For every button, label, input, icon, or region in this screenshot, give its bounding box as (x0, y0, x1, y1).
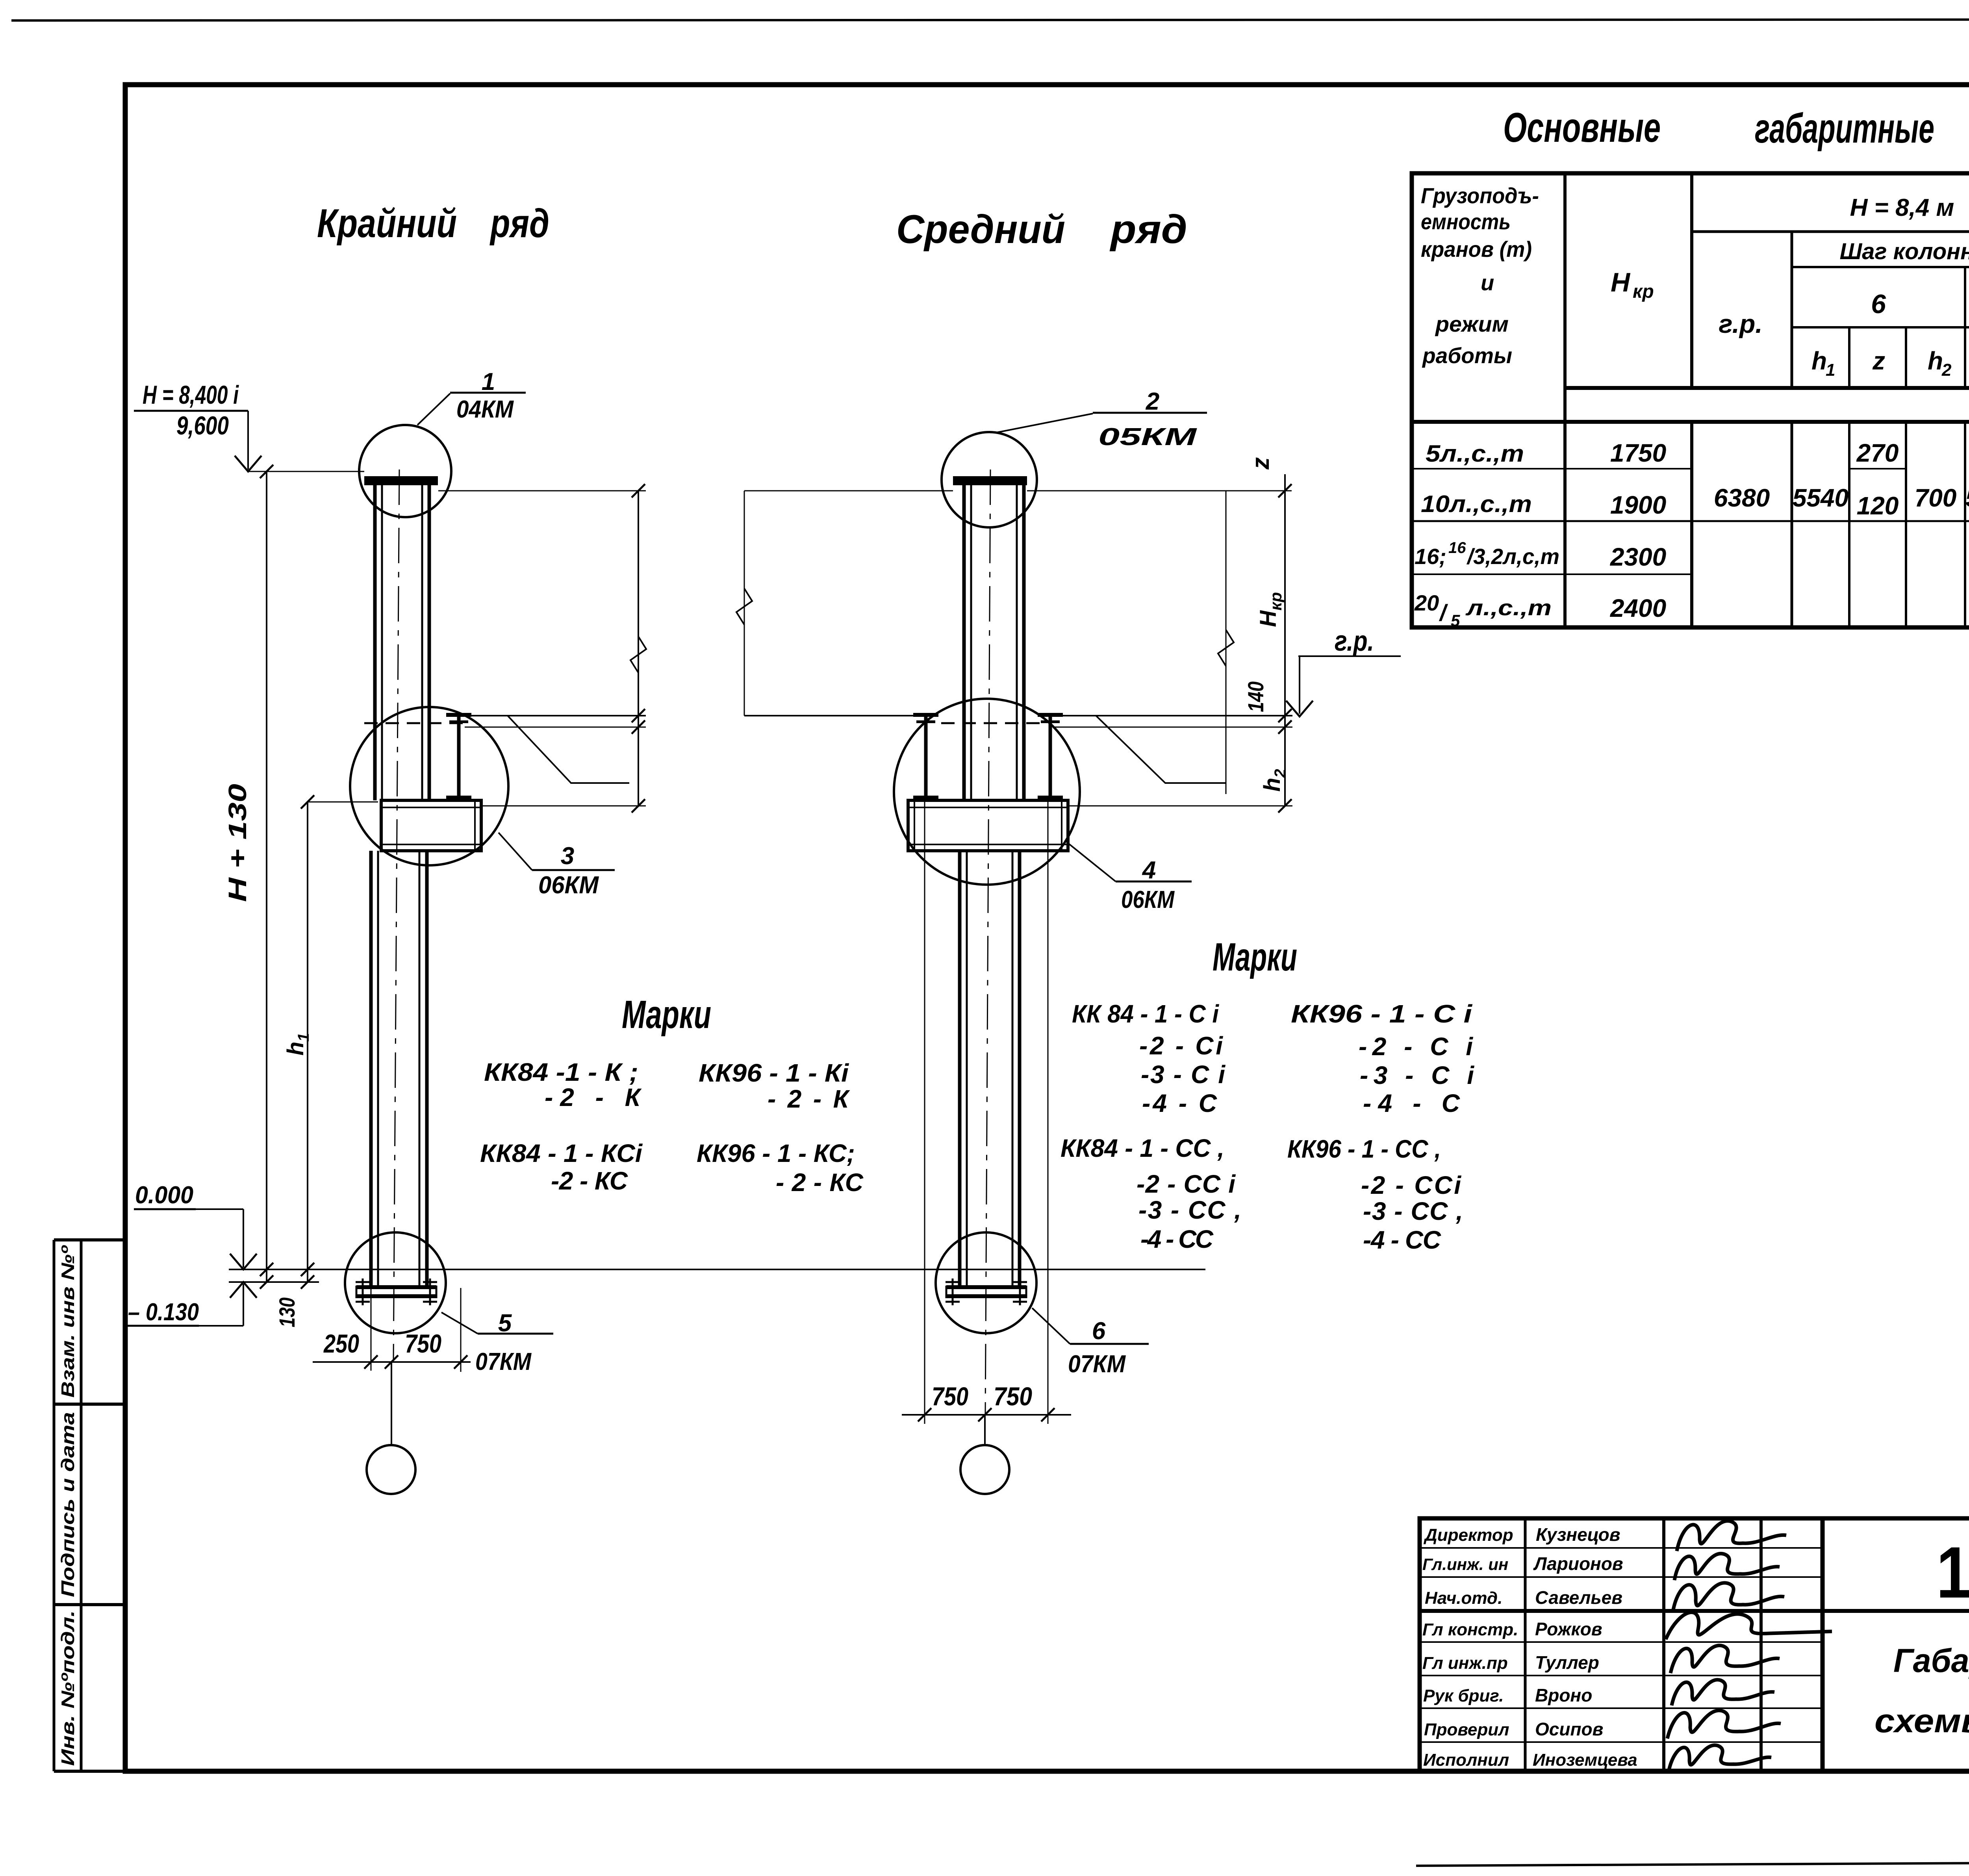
svg-text:16: 16 (1448, 539, 1466, 557)
detail circle 2 (942, 432, 1037, 527)
svg-text:КК84 -1 - К ;: КК84 -1 - К ; (484, 1058, 638, 1086)
svg-text:Инв. №ºподл.: Инв. №ºподл. (57, 1611, 78, 1766)
svg-text:- 2 - КС: - 2 - КС (776, 1168, 864, 1197)
svg-text:06КМ: 06КМ (538, 872, 599, 899)
svg-text:Ларионов: Ларионов (1533, 1553, 1623, 1574)
svg-text:16;: 16; (1415, 544, 1446, 569)
svg-text:20: 20 (1414, 590, 1439, 615)
leader and label 2 / 05КМ (997, 414, 1093, 432)
svg-text:Проверил: Проверил (1424, 1720, 1509, 1739)
dimension line h1 (307, 802, 308, 1282)
svg-text:5: 5 (498, 1310, 512, 1337)
K2 offset witness line (1096, 716, 1226, 783)
column K2 lower shaft (958, 851, 962, 1286)
svg-text:и: и (1481, 270, 1494, 295)
svg-text:КК96 - 1 - Кі: КК96 - 1 - Кі (699, 1059, 849, 1087)
svg-text:Туллер: Туллер (1535, 1652, 1599, 1673)
svg-text:кранов (т): кранов (т) (1421, 237, 1532, 262)
leader and label 5 / 07КМ (441, 1312, 478, 1334)
svg-text:Марки: Марки (1213, 935, 1297, 979)
K2 crane rail extension right (1055, 715, 1292, 716)
sheet top edge line (11, 19, 1969, 20)
svg-text:1750: 1750 (1610, 439, 1666, 467)
svg-text:– 0.130: – 0.130 (128, 1299, 199, 1326)
svg-text:6: 6 (1871, 289, 1886, 319)
svg-text:режим: режим (1435, 312, 1509, 336)
detail circle 5 (345, 1232, 446, 1333)
svg-text:Н = 8,4 м: Н = 8,4 м (1850, 194, 1954, 221)
svg-text:5л.,с.,т: 5л.,с.,т (1426, 440, 1524, 467)
K1 crane rail level extension (465, 715, 646, 716)
svg-text:07КМ: 07КМ (475, 1348, 532, 1375)
svg-text:Средний: Средний (896, 207, 1065, 252)
svg-text:-4 - С: -4 - С (1142, 1089, 1217, 1117)
grid bubble K1 (391, 1362, 392, 1445)
svg-text:КК96 - 1 - С і: КК96 - 1 - С і (1291, 1000, 1472, 1028)
svg-text:Рожков: Рожков (1535, 1619, 1602, 1639)
svg-text:схемы колонн: схемы колонн (1874, 1702, 1969, 1739)
leader and label 6 / 07КМ (1032, 1308, 1070, 1344)
svg-text:1900: 1900 (1610, 491, 1666, 519)
svg-text:г.р.: г.р. (1719, 309, 1762, 338)
table vertical lines (1563, 173, 1567, 627)
K1 dimension line (right) (638, 491, 639, 807)
column K1 console bracket (381, 800, 481, 851)
svg-text:Грузоподъ-: Грузоподъ- (1421, 183, 1539, 208)
leader and label 1 / 04КМ (417, 393, 450, 425)
svg-text:ряд: ряд (1109, 207, 1187, 252)
svg-text:кр: кр (1633, 281, 1654, 302)
svg-text:10л.,с.,т: 10л.,с.,т (1421, 491, 1532, 517)
column K2 crane beam dashed line (941, 722, 1040, 724)
svg-text:работы: работы (1422, 343, 1512, 368)
svg-text:04КМ: 04КМ (456, 396, 514, 423)
title block row lines (1420, 1547, 1823, 1549)
svg-text:Основные: Основные (1503, 104, 1661, 151)
svg-text:-2 - КС: -2 - КС (551, 1167, 628, 1195)
K2 cap extension right (1027, 490, 1292, 492)
svg-text:07КМ: 07КМ (1068, 1351, 1126, 1378)
signatures scrawls (1677, 1521, 1786, 1551)
column K2 cap plate (953, 476, 1027, 485)
svg-text:Исполнил: Исполнил (1423, 1750, 1509, 1770)
svg-text:4: 4 (1142, 857, 1156, 884)
column K2 anchor bolt right (1049, 717, 1052, 800)
svg-text:z: z (1247, 457, 1274, 470)
column K1 base plate (356, 1285, 436, 1289)
svg-text:2300: 2300 (1610, 543, 1666, 571)
dimension 250/750 under K1 (371, 1270, 372, 1371)
svg-text:Рук бриг.: Рук бриг. (1423, 1686, 1504, 1705)
column K2 console bracket (908, 800, 1068, 851)
svg-text:Нач.отд.: Нач.отд. (1425, 1588, 1502, 1608)
svg-text:Гл констр.: Гл констр. (1422, 1620, 1518, 1639)
svg-text:250: 250 (323, 1329, 359, 1358)
svg-text:КК 84 - 1 - С і: КК 84 - 1 - С і (1072, 1000, 1219, 1028)
svg-text:Гл инж.пр: Гл инж.пр (1422, 1653, 1508, 1673)
svg-text:Подпись и дата: Подпись и дата (57, 1412, 78, 1597)
K2 right witness line with break (1226, 491, 1227, 794)
svg-text:-2 - СС і: -2 - СС і (1137, 1170, 1236, 1198)
svg-text:h: h (1928, 347, 1943, 375)
svg-text:05КМ: 05КМ (1098, 423, 1197, 451)
detail circle 3 (350, 707, 508, 865)
svg-text:Крайний: Крайний (317, 201, 457, 246)
svg-text:КК84 - 1 - СС ,: КК84 - 1 - СС , (1061, 1134, 1224, 1162)
svg-text:1.424.3-7.2-01КМ: 1.424.3-7.2-01КМ (1936, 1532, 1969, 1613)
svg-text:750: 750 (932, 1382, 968, 1411)
K1 console top extension (481, 805, 646, 807)
column K1 centerline (393, 469, 399, 1361)
svg-text:Н + 130: Н + 130 (223, 784, 252, 902)
svg-text:-4 - СС: -4 - СС (1363, 1226, 1441, 1254)
leader and label 3 / 06КМ (499, 833, 532, 870)
svg-text:Габаритные: Габаритные (1893, 1642, 1969, 1679)
svg-text:750: 750 (405, 1329, 441, 1358)
column K2 anchor bolts at base (952, 1279, 954, 1305)
svg-text:Н = 8,400 і: Н = 8,400 і (143, 380, 239, 409)
column K1 cap plate (364, 476, 438, 485)
svg-text:6: 6 (1092, 1317, 1106, 1345)
title block outer (1420, 1518, 1969, 1771)
svg-text:700: 700 (1915, 484, 1957, 512)
detail circle 1 (359, 425, 451, 517)
svg-text:КК96 - 1 - СС ,: КК96 - 1 - СС , (1287, 1135, 1441, 1163)
column K1 anchor bolt at console (457, 717, 461, 800)
svg-text:Н: Н (1611, 267, 1631, 297)
table horizontal lines (1692, 230, 1969, 233)
svg-text:130: 130 (274, 1297, 299, 1327)
svg-text:г.р.: г.р. (1335, 625, 1374, 657)
svg-text:Марки: Марки (622, 993, 711, 1037)
K1 offset witness line (508, 716, 629, 783)
svg-text:л.,с.,т: л.,с.,т (1465, 595, 1552, 620)
svg-text:06КМ: 06КМ (1121, 886, 1175, 913)
svg-text:Кузнецов: Кузнецов (1536, 1524, 1620, 1545)
grid bubble K2 (984, 1415, 986, 1445)
svg-text:270: 270 (1856, 439, 1899, 467)
column K1 anchor bolts at base (362, 1279, 364, 1305)
table outer border (1412, 173, 1969, 627)
dimension line H+130 (266, 471, 267, 1282)
svg-text:1: 1 (482, 368, 495, 395)
svg-text:Савельев: Савельев (1535, 1587, 1622, 1608)
svg-text:2400: 2400 (1610, 594, 1666, 622)
svg-text:/3,2л,с,т: /3,2л,с,т (1466, 544, 1559, 569)
svg-text:Директор: Директор (1423, 1525, 1513, 1545)
svg-text:ряд: ряд (489, 201, 549, 246)
detail circle 6 (936, 1232, 1036, 1333)
svg-text:емность: емность (1421, 209, 1511, 234)
svg-text:750: 750 (994, 1382, 1032, 1411)
svg-text:1: 1 (1826, 360, 1835, 380)
svg-text:-2 - ССі: -2 - ССі (1361, 1171, 1461, 1199)
column K2 anchor bolt left (924, 717, 928, 800)
-0.130 level stub line (229, 1281, 319, 1283)
K2 dimension line (right) (1284, 474, 1286, 807)
svg-text:Взам. инв №º: Взам. инв №º (57, 1245, 78, 1398)
svg-text:h: h (1811, 347, 1827, 375)
K2 console top extension (1068, 805, 1292, 807)
svg-text:Шаг колонн , м: Шаг колонн , м (1840, 239, 1969, 264)
title block columns (1524, 1518, 1527, 1771)
svg-text:-3 - С і: -3 - С і (1141, 1060, 1226, 1089)
K2 cap extension to left witness (744, 490, 953, 492)
sheet bottom edge line (1416, 1860, 1969, 1866)
K2 left witness line with break (744, 491, 745, 716)
svg-text:Гл.инж. ин: Гл.инж. ин (1422, 1555, 1508, 1574)
K1 cap top extension line (438, 490, 646, 492)
svg-text:2: 2 (1941, 360, 1952, 380)
svg-text:Иноземцева: Иноземцева (1533, 1750, 1637, 1770)
svg-text:z: z (1872, 347, 1885, 375)
column K2 centerline (985, 469, 990, 1415)
0.000 level line (229, 1269, 1205, 1270)
svg-text:3: 3 (561, 842, 574, 870)
column K2 upper shaft (962, 485, 966, 800)
column K1 crane beam dashed line (364, 722, 463, 724)
svg-text:КК96 - 1 - КС;: КК96 - 1 - КС; (697, 1139, 855, 1167)
column K1 upper shaft (373, 485, 377, 800)
svg-text:2: 2 (1146, 388, 1159, 415)
svg-text:Вроно: Вроно (1535, 1685, 1592, 1705)
column K1 lower shaft (369, 851, 373, 1286)
K2 crane rail extension left (744, 715, 926, 716)
svg-text:-2 - Сі: -2 - Сі (1139, 1032, 1223, 1060)
svg-text:6380: 6380 (1714, 484, 1770, 512)
svg-text:- 2 - К: - 2 - К (768, 1085, 850, 1113)
svg-text:-4 - СС: -4 - СС (1140, 1225, 1214, 1253)
side stamp boxes (53, 1240, 56, 1771)
svg-text:Осипов: Осипов (1535, 1719, 1603, 1739)
svg-text:КК84 - 1 - КСі: КК84 - 1 - КСі (480, 1139, 643, 1167)
leader and label 4 / 06КМ (1069, 844, 1116, 881)
svg-text:9,600: 9,600 (176, 411, 229, 440)
svg-text:140: 140 (1243, 681, 1268, 712)
svg-text:0.000: 0.000 (135, 1182, 193, 1209)
detail circle 4 (894, 699, 1080, 885)
svg-text:5540: 5540 (1793, 484, 1848, 512)
K2 140 level extension (1055, 727, 1292, 728)
column K2 base plate (946, 1285, 1026, 1289)
svg-text:5140: 5140 (1965, 484, 1969, 512)
svg-text:габаритные: габаритные (1755, 105, 1934, 152)
svg-text:120: 120 (1857, 492, 1899, 520)
svg-text:5: 5 (1451, 611, 1460, 630)
dimension 750/750 under K2 (924, 802, 925, 1424)
